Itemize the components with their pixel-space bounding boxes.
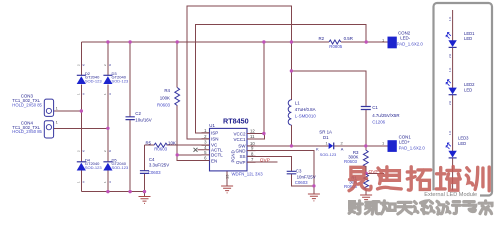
svg-text:2: 2 xyxy=(204,134,207,139)
svg-text:1: 1 xyxy=(56,119,59,124)
svg-text:10nF/25V: 10nF/25V xyxy=(297,174,316,179)
svg-text:A: A xyxy=(82,93,86,95)
wire IC pad pin13 xyxy=(226,171,228,186)
ground GND net xyxy=(308,194,320,201)
svg-text:C0603: C0603 xyxy=(295,180,308,185)
svg-text:5: 5 xyxy=(204,150,207,155)
svg-text:SOD-123: SOD-123 xyxy=(112,165,129,170)
wire OVP tap stub xyxy=(366,172,384,174)
svg-text:LED2: LED2 xyxy=(464,82,475,87)
svg-text:C1206: C1206 xyxy=(372,120,385,125)
capacitor C4 xyxy=(140,157,169,175)
diode D4 xyxy=(77,150,103,183)
svg-text:8: 8 xyxy=(251,151,254,156)
diode D5 xyxy=(103,150,129,183)
svg-text:R0805: R0805 xyxy=(329,44,342,49)
svg-text:R4: R4 xyxy=(164,88,170,93)
svg-text:LED: LED xyxy=(464,87,472,92)
svg-text:SS: SS xyxy=(239,154,245,159)
LED LED3 xyxy=(446,131,469,158)
capacitor C3 xyxy=(287,169,316,185)
svg-text:HOLD_2X50 85: HOLD_2X50 85 xyxy=(12,129,42,134)
svg-text:OVP: OVP xyxy=(369,169,379,175)
wire LED module string xyxy=(452,10,454,193)
wire bottom bus y=191.6 xyxy=(81,191,144,193)
svg-text:2: 2 xyxy=(103,150,107,152)
svg-text:C0603: C0603 xyxy=(148,170,161,175)
wire C4 bottom xyxy=(144,173,146,196)
svg-text:SOD-123: SOD-123 xyxy=(85,79,102,84)
svg-text:1: 1 xyxy=(326,140,329,145)
svg-text:EN: EN xyxy=(211,158,217,163)
wire R5-VC pin3 xyxy=(145,145,210,171)
wire OVP pin7 stub xyxy=(247,161,278,163)
wire C2 branch x=130.1 xyxy=(129,42,131,192)
svg-text:1: 1 xyxy=(56,105,59,110)
wire C1 bottom xyxy=(365,110,367,146)
svg-text:100K: 100K xyxy=(160,96,170,101)
svg-text:10K: 10K xyxy=(168,141,176,146)
resistor R4 xyxy=(157,88,180,108)
svg-text:K: K xyxy=(108,150,112,152)
svg-text:2: 2 xyxy=(341,140,344,145)
ground below R1 xyxy=(360,195,372,202)
diode D2 xyxy=(77,64,103,95)
svg-text:ISN: ISN xyxy=(211,137,219,142)
wire L1 branch xyxy=(290,42,292,146)
wire ISP line pin1 xyxy=(196,25,367,133)
svg-text:PGND: PGND xyxy=(231,150,236,162)
wire DCTL pin5 xyxy=(177,154,201,156)
capacitor C2 xyxy=(126,111,152,122)
svg-text:2: 2 xyxy=(103,64,107,66)
svg-text:11: 11 xyxy=(250,134,255,139)
watermark gray CJK 射频和天线设计专家 xyxy=(349,201,492,214)
svg-text:1: 1 xyxy=(204,128,207,133)
resistor R3 xyxy=(344,150,368,167)
svg-text:SOD-123: SOD-123 xyxy=(320,152,337,157)
pin numbers right xyxy=(250,129,255,163)
svg-text:7: 7 xyxy=(251,157,254,162)
External LED Module caption xyxy=(423,190,480,198)
wire CON4 to column xyxy=(54,127,108,129)
svg-text:1: 1 xyxy=(77,181,81,183)
svg-text:K: K xyxy=(316,146,319,151)
svg-text:C1: C1 xyxy=(372,105,378,110)
svg-text:1: 1 xyxy=(382,140,385,145)
connector CON1 xyxy=(382,135,425,152)
wire ISN rect pin2 xyxy=(187,6,292,139)
svg-text:1: 1 xyxy=(103,181,107,183)
wire CON3 to column xyxy=(54,110,82,112)
svg-text:L-SMD010: L-SMD010 xyxy=(295,114,317,119)
svg-text:R5: R5 xyxy=(146,141,152,146)
svg-text:LED: LED xyxy=(458,141,466,146)
svg-text:SOD-123: SOD-123 xyxy=(112,79,129,84)
svg-text:External LED Module: External LED Module xyxy=(424,192,477,198)
svg-text:LED+: LED+ xyxy=(399,140,411,145)
glyph yi xyxy=(349,167,371,190)
ground below C4 xyxy=(139,197,151,204)
pin numbers left xyxy=(204,128,207,161)
svg-text:HOLD_2X50 85: HOLD_2X50 85 xyxy=(12,102,42,107)
pin stubs right xyxy=(247,134,256,163)
wire C1 top line xyxy=(291,71,365,107)
no-connect X on pin 4 xyxy=(194,148,198,152)
inductor L1 xyxy=(288,100,316,125)
wire R3 chain xyxy=(365,146,367,173)
wire SW D1 row xyxy=(247,145,388,147)
wire VCC vertical pins 11 12 xyxy=(256,42,265,139)
watermark red CJK 易迪拓培训 xyxy=(349,167,489,191)
connector CON4 xyxy=(12,119,58,138)
wire R1 chain xyxy=(365,173,367,195)
pin names left xyxy=(211,131,223,164)
capacitor C1 xyxy=(361,105,400,125)
LED LED1 xyxy=(446,31,475,58)
svg-text:1: 1 xyxy=(77,93,81,95)
svg-text:LED: LED xyxy=(464,36,472,41)
svg-text:2: 2 xyxy=(77,64,81,66)
svg-text:A: A xyxy=(108,93,112,95)
svg-text:13: 13 xyxy=(225,174,230,179)
svg-text:2: 2 xyxy=(77,150,81,152)
svg-text:PAD_1.6X2.0: PAD_1.6X2.0 xyxy=(397,42,424,47)
svg-text:K: K xyxy=(82,64,86,66)
svg-text:LED1: LED1 xyxy=(464,31,475,36)
svg-text:K: K xyxy=(108,64,112,66)
pin stubs left xyxy=(198,133,210,161)
wire C3 bottom xyxy=(292,174,314,186)
svg-text:R0603: R0603 xyxy=(344,159,357,164)
pin names right xyxy=(233,131,246,165)
svg-text:R0603: R0603 xyxy=(154,147,167,152)
svg-text:OVP: OVP xyxy=(236,160,246,165)
svg-text:1 K: 1 K xyxy=(448,17,452,21)
svg-text:WDFN_12L 3X3: WDFN_12L 3X3 xyxy=(232,171,264,176)
svg-text:6: 6 xyxy=(204,156,207,161)
svg-text:C3: C3 xyxy=(296,169,302,174)
svg-text:R2: R2 xyxy=(319,36,325,41)
op-amp U1 RT8450 IC body xyxy=(194,117,264,180)
svg-text:1: 1 xyxy=(103,93,107,95)
svg-text:C2: C2 xyxy=(135,111,141,116)
resistor R1 xyxy=(344,174,368,190)
diode D1 SR1A xyxy=(316,129,344,157)
svg-text:U1: U1 xyxy=(209,123,215,128)
svg-text:1 K: 1 K xyxy=(448,131,452,135)
svg-text:K: K xyxy=(82,150,86,152)
resistor R2 xyxy=(319,36,353,49)
wire left diode column x=81.3 xyxy=(80,42,82,192)
svg-text:R0603: R0603 xyxy=(157,103,170,108)
svg-text:RT8450: RT8450 xyxy=(223,117,249,126)
svg-text:SOD-123: SOD-123 xyxy=(85,165,102,170)
svg-text:D1: D1 xyxy=(323,135,329,140)
svg-text:47uH/0.8A: 47uH/0.8A xyxy=(295,107,316,112)
wire SS pin8 to C3 xyxy=(247,156,292,171)
svg-text:1 K: 1 K xyxy=(448,68,452,72)
wire second diode column x=107.9 xyxy=(107,42,109,192)
wire GND pin9 xyxy=(247,151,314,194)
svg-text:10u/16V: 10u/16V xyxy=(135,118,151,123)
svg-text:OVP: OVP xyxy=(260,158,270,164)
diode D3 xyxy=(103,64,129,95)
svg-text:L1: L1 xyxy=(295,101,300,106)
svg-text:A: A xyxy=(341,146,344,151)
svg-text:DCTL: DCTL xyxy=(211,153,223,158)
wire main top bus y=42 xyxy=(81,41,387,43)
svg-text:2 A: 2 A xyxy=(448,54,452,58)
connector CON3 xyxy=(12,94,58,117)
svg-text:GND: GND xyxy=(236,148,247,153)
svg-text:C4: C4 xyxy=(149,157,155,162)
svg-text:LED-: LED- xyxy=(400,35,411,40)
resistor R5 xyxy=(146,141,176,152)
svg-text:VCC2: VCC2 xyxy=(233,131,246,136)
ground below IC pin13 xyxy=(221,186,233,193)
svg-text:4.7u/25V/X5R: 4.7u/25V/X5R xyxy=(372,113,399,118)
svg-text:A: A xyxy=(82,181,86,183)
svg-text:3.3uF/25V: 3.3uF/25V xyxy=(149,163,169,168)
svg-text:LED3: LED3 xyxy=(458,136,469,141)
svg-text:A: A xyxy=(108,181,112,183)
svg-text:12: 12 xyxy=(250,129,255,134)
svg-text:VCC1: VCC1 xyxy=(233,137,246,142)
svg-text:0.5R: 0.5R xyxy=(344,36,353,41)
svg-text:2 A: 2 A xyxy=(448,101,452,105)
svg-text:PAD_1.6X2.0: PAD_1.6X2.0 xyxy=(399,145,426,150)
External LED Module box xyxy=(434,3,493,196)
svg-text:ISP: ISP xyxy=(211,131,218,136)
svg-text:SR 1A: SR 1A xyxy=(319,129,332,134)
connector CON2 xyxy=(382,31,423,49)
LED LED2 xyxy=(446,68,475,105)
wire R4 branch x=176.6 xyxy=(177,42,201,161)
